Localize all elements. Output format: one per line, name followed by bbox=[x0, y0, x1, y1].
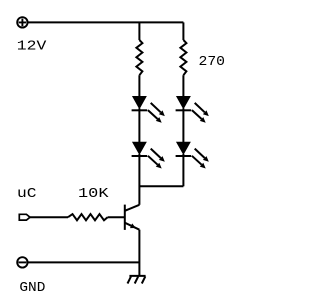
resistor left 270 vertical zigzag bbox=[136, 40, 142, 75]
LED D3 diode triangle bbox=[177, 97, 190, 109]
terminal GND (circle with minus) bbox=[17, 257, 27, 267]
LED D4 light arrow 1 bbox=[195, 149, 205, 158]
wire GND terminal to emitter node bbox=[28, 261, 139, 263]
wire LED D2 down to collector corner bbox=[138, 154, 140, 205]
wire LED D1 to LED D2 bbox=[138, 108, 140, 142]
svg-text:uC: uC bbox=[17, 186, 37, 202]
wire emitter down to ground rail bbox=[138, 230, 140, 276]
wire right resistor to LED D3 bbox=[182, 75, 184, 96]
LED D4 cathode bar bbox=[176, 155, 192, 157]
wire junction joining branches bbox=[139, 185, 183, 187]
terminal +12V (circle with plus) bbox=[17, 17, 27, 27]
LED D3 light arrow 1 bbox=[195, 103, 205, 112]
svg-text:270: 270 bbox=[199, 54, 226, 70]
LED D2 diode triangle bbox=[133, 142, 146, 154]
LED D4 light arrow 2 bbox=[192, 156, 202, 165]
resistor 10K horizontal zigzag bbox=[68, 214, 108, 220]
LED D1 light arrow 2 bbox=[148, 110, 158, 119]
LED D3 cathode bar bbox=[176, 109, 192, 111]
LED D3 light arrow 2 bbox=[192, 110, 202, 119]
wire tag to base resistor bbox=[30, 216, 68, 218]
svg-text:GND: GND bbox=[19, 280, 45, 296]
LED D2 light arrow 1 bbox=[151, 149, 161, 158]
wire LED D3 to LED D4 bbox=[182, 108, 184, 142]
LED D2 light arrow 2 bbox=[148, 156, 158, 165]
LED D4 diode triangle bbox=[177, 142, 190, 154]
LED D2 cathode bar bbox=[132, 155, 148, 157]
ground chassis symbol bbox=[128, 276, 146, 284]
svg-text:10K: 10K bbox=[78, 186, 109, 202]
transistor Q1 emitter diagonal with arrow bbox=[125, 223, 140, 230]
LED D1 diode triangle bbox=[133, 97, 146, 109]
wire LED D4 down to junction bbox=[182, 154, 184, 186]
wire right branch drop from top rail bbox=[182, 22, 184, 40]
wire top rail from +12V to right branch bbox=[28, 21, 183, 23]
resistor right 270 vertical zigzag bbox=[180, 40, 186, 75]
svg-text:12V: 12V bbox=[17, 39, 47, 55]
transistor Q1 collector diagonal bbox=[125, 205, 140, 211]
wire base resistor to transistor base bbox=[108, 216, 125, 218]
wire left branch drop from top rail bbox=[138, 22, 140, 40]
input tag uC pin bbox=[19, 214, 30, 220]
LED D1 light arrow 1 bbox=[151, 103, 161, 112]
wire left resistor to LED D1 bbox=[138, 75, 140, 96]
transistor Q1 base bar bbox=[124, 205, 126, 230]
LED D1 cathode bar bbox=[132, 109, 148, 111]
